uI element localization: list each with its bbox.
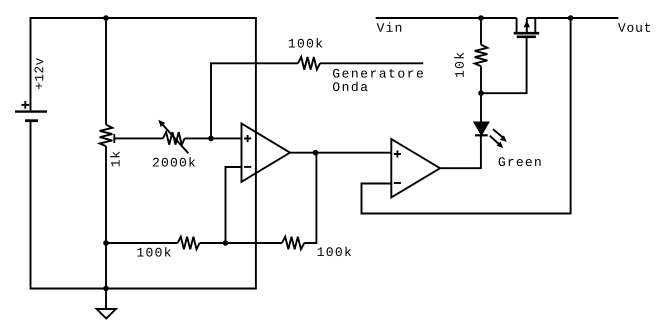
resistor R5 100k bbox=[282, 237, 304, 250]
label 100k bbox=[137, 247, 171, 257]
wiper tap of R1 bbox=[113, 134, 115, 143]
wire U1 output to U2 +input bbox=[290, 152, 391, 154]
label 100k bbox=[318, 247, 352, 257]
label 10k bbox=[454, 53, 464, 77]
wire left supply loop: top rail, right vertical, bottom rail bbox=[31, 18, 256, 289]
potentiometer R2 2000k bbox=[158, 120, 188, 154]
wire from top rail down to R1 bbox=[105, 18, 107, 125]
wire +input node up and right to R3 bbox=[211, 63, 298, 138]
label +12v bbox=[35, 58, 44, 89]
resistor R1 1k bbox=[100, 125, 113, 147]
wire tap to potentiometer bbox=[114, 137, 163, 139]
resistor R3 100k bbox=[298, 57, 320, 70]
MOSFET Q1 bbox=[514, 18, 540, 37]
label Green bbox=[499, 157, 541, 166]
wire Vout rail bbox=[527, 17, 619, 19]
node Vout / feedback bbox=[568, 15, 574, 21]
wire Vin rail bbox=[376, 17, 517, 19]
wire R6 top to Vin rail bbox=[480, 18, 482, 45]
wire U2 output to LED bbox=[440, 135, 481, 168]
wire potentiometer to op-amp U1 +input bbox=[185, 137, 242, 139]
node U1 +input bbox=[208, 136, 214, 142]
node U1 -input / R4 / R5 bbox=[223, 240, 229, 246]
wire between R4 and R5 bbox=[200, 242, 282, 244]
LED D1 bbox=[475, 122, 507, 148]
node ground junction bbox=[103, 286, 109, 292]
net label Vout bbox=[618, 23, 650, 32]
wire lower feedback rail bbox=[106, 242, 178, 244]
wire LED anode up through 10k node bbox=[480, 66, 482, 122]
node R6 / LED / gate bbox=[478, 90, 484, 96]
wire R3 to generator node bbox=[320, 62, 423, 64]
wire U1 -input feedback down to lower rail bbox=[226, 167, 242, 243]
wire gate of Q1 down to 10k/LED node bbox=[481, 37, 527, 93]
node Vin / R6 bbox=[478, 15, 484, 21]
op-amp U2 bbox=[391, 139, 440, 198]
ground bbox=[97, 289, 116, 319]
wire R1 bottom down to lower node bbox=[105, 146, 107, 288]
node R1 bottom / R4 bbox=[103, 240, 109, 246]
wire R5 up to U1 output bbox=[304, 153, 316, 243]
label 2000k bbox=[153, 157, 195, 167]
net label Vin bbox=[377, 22, 402, 31]
resistor R6 10k bbox=[475, 45, 488, 67]
label 100k bbox=[289, 38, 323, 48]
battery B1 bbox=[15, 101, 47, 121]
node U1 output bbox=[313, 150, 319, 156]
node top rail / R1 bbox=[103, 15, 109, 21]
label 1k bbox=[110, 152, 119, 167]
wire U2 -input feedback loop from Vout bbox=[362, 18, 571, 214]
resistor R4 100k bbox=[178, 237, 200, 250]
op-amp U1 bbox=[242, 124, 291, 182]
net label Generatore Onda bbox=[333, 69, 423, 78]
